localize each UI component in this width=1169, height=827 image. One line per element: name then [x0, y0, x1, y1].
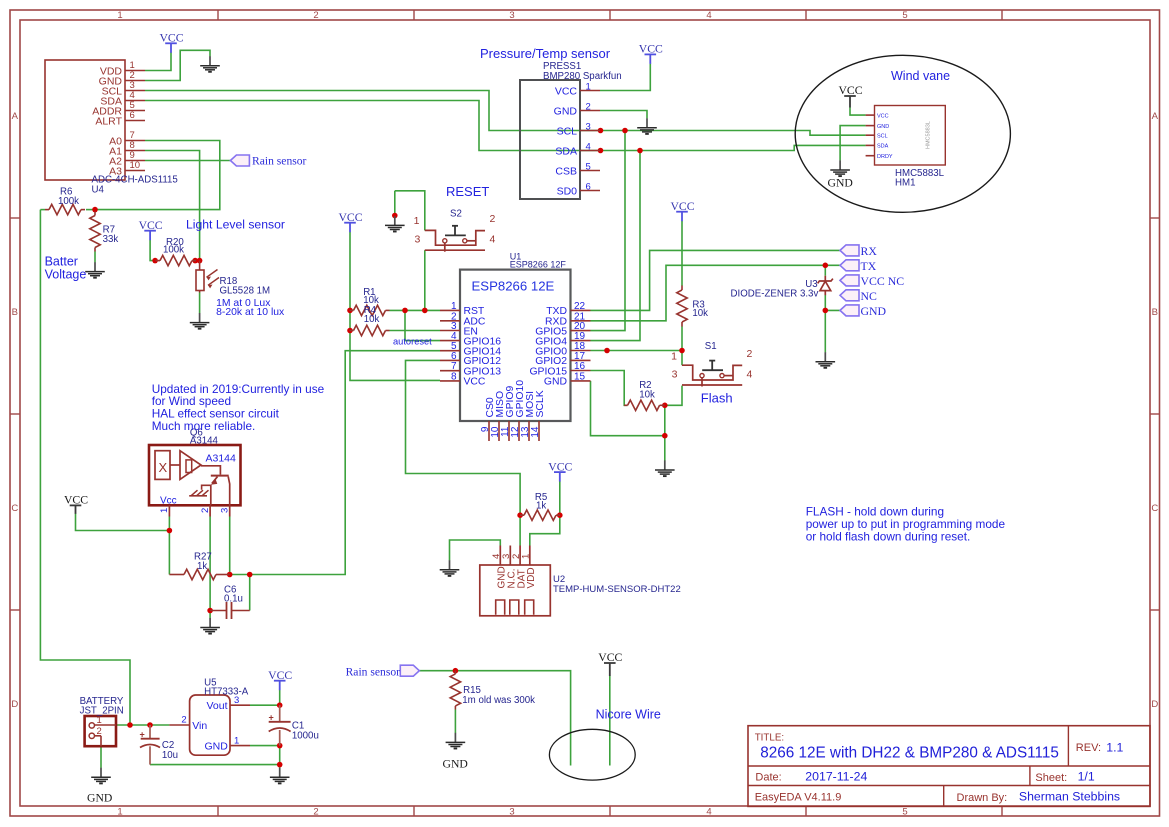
wire SDA net U4 to BMP280	[145, 101, 601, 151]
VCC symbol above BMP280	[645, 53, 657, 55]
wire VCC to R5 right node	[559, 481, 561, 515]
svg-text:TXD: TXD	[546, 306, 567, 317]
border row ticks left	[10, 218, 20, 610]
svg-text:1000u: 1000u	[292, 731, 319, 742]
svg-text:GPIO15: GPIO15	[529, 366, 567, 377]
svg-text:6: 6	[586, 182, 591, 193]
wire rain sensor to nichrome wire	[419, 671, 570, 766]
svg-text:HT7333-A: HT7333-A	[204, 687, 249, 698]
wire SCL net down to GPIO5	[591, 131, 626, 331]
svg-text:4: 4	[490, 234, 496, 246]
border row ticks right	[1150, 218, 1160, 610]
svg-text:SD0: SD0	[557, 185, 578, 197]
svg-text:4: 4	[706, 10, 711, 21]
svg-text:SCL: SCL	[557, 125, 578, 137]
IC U1 ESP8266 12E body	[440, 270, 591, 441]
svg-text:33k: 33k	[103, 234, 119, 245]
svg-text:VCC: VCC	[64, 494, 88, 507]
wire TX to zener U3	[824, 265, 826, 275]
wire S1 node down to switch	[681, 351, 683, 366]
ground symbol C1	[279, 768, 281, 777]
border column labels top	[117, 10, 907, 21]
wire nichrome VCC drop	[609, 676, 611, 766]
net flag RX	[840, 245, 859, 256]
svg-text:Nicore Wire: Nicore Wire	[596, 708, 661, 722]
wire GPIO15 to R2	[591, 371, 628, 406]
wire Q6 pin3 down to R27 node	[229, 517, 231, 575]
svg-text:Sheet:: Sheet:	[1035, 772, 1067, 784]
border row labels right	[1151, 111, 1158, 710]
svg-text:GND: GND	[877, 124, 889, 130]
wire R7 to ground	[94, 252, 96, 263]
svg-text:Voltage: Voltage	[45, 267, 87, 281]
net flag VCC NC	[840, 275, 859, 286]
svg-text:100k: 100k	[163, 244, 184, 255]
svg-text:2: 2	[313, 10, 318, 21]
svg-text:A: A	[12, 111, 19, 122]
wire VCC to R20	[150, 240, 155, 261]
title block frame	[748, 726, 1150, 807]
capacitor C6 0.1u	[210, 610, 226, 612]
svg-text:Vin: Vin	[192, 720, 207, 732]
svg-text:DRDY: DRDY	[877, 154, 893, 160]
svg-text:C: C	[1151, 503, 1158, 514]
svg-text:2: 2	[97, 726, 102, 737]
wire C1 bottom to ground	[279, 746, 281, 768]
battery JST 2PIN body	[85, 715, 116, 746]
border column ticks top	[218, 10, 1002, 20]
wire SCL net BMP280 to wind vane	[601, 131, 866, 136]
svg-text:1/1: 1/1	[1078, 770, 1095, 784]
svg-text:VCC: VCC	[670, 200, 694, 213]
wire TXD to RX flag	[591, 250, 841, 310]
wire R6 R7 node segment	[86, 209, 95, 211]
resistor R15 1m	[454, 671, 456, 674]
svg-text:ADC-4CH-ADS1115: ADC-4CH-ADS1115	[92, 175, 178, 186]
svg-text:3: 3	[414, 234, 420, 246]
svg-text:VCC: VCC	[268, 669, 292, 682]
VCC symbol wind vane	[844, 95, 856, 97]
resistor R20 100k	[156, 260, 161, 262]
svg-text:SDA: SDA	[877, 144, 889, 150]
net flag Rain sensor bottom	[400, 665, 419, 676]
svg-text:4: 4	[706, 806, 711, 817]
svg-text:VCC: VCC	[639, 43, 663, 56]
wire Q6 pin1 down to R27	[168, 531, 170, 575]
svg-text:A: A	[1152, 111, 1159, 122]
svg-text:1: 1	[97, 715, 102, 726]
svg-text:TX: TX	[861, 259, 877, 273]
wire wind vane VCC to pin	[850, 108, 866, 116]
svg-text:Pressure/Temp sensor: Pressure/Temp sensor	[480, 46, 611, 61]
svg-text:Vout: Vout	[206, 700, 227, 712]
svg-text:GND: GND	[861, 304, 887, 318]
svg-text:TEMP-HUM-SENSOR-DHT22: TEMP-HUM-SENSOR-DHT22	[553, 584, 681, 595]
svg-text:or hold flash down during rese: or hold flash down during reset.	[806, 529, 971, 543]
svg-text:A3144: A3144	[190, 436, 219, 447]
resistor R2 10k	[624, 404, 628, 406]
wire SDA net BMP280 to wind vane	[601, 145, 866, 150]
svg-text:A3144: A3144	[206, 452, 237, 464]
VCC symbol above R5	[554, 471, 566, 473]
svg-text:5: 5	[586, 162, 591, 173]
wire S2 pin3 to RST	[424, 250, 426, 310]
wire S2 top loop to ground	[395, 191, 425, 231]
sensor U2 DHT22 body	[480, 546, 551, 616]
svg-text:GND: GND	[87, 792, 112, 805]
svg-text:S2: S2	[450, 209, 462, 220]
push button S2 RESET	[425, 230, 485, 245]
net flag TX	[840, 260, 859, 271]
ground symbol R18	[199, 313, 201, 322]
border row labels left	[11, 111, 18, 710]
svg-text:VCC NC: VCC NC	[861, 274, 905, 288]
svg-text:10: 10	[130, 160, 141, 171]
svg-text:2: 2	[747, 348, 753, 360]
svg-text:10k: 10k	[639, 389, 655, 400]
diode zener U3	[824, 276, 826, 281]
wire R1 to RST	[390, 309, 441, 311]
svg-text:VCC: VCC	[555, 85, 578, 97]
svg-text:U4: U4	[92, 185, 105, 196]
svg-text:B: B	[12, 307, 18, 318]
svg-text:D: D	[1151, 699, 1158, 710]
svg-text:D: D	[11, 699, 18, 710]
svg-text:NC: NC	[861, 289, 878, 303]
VCC symbol nichrome wire	[604, 662, 616, 664]
svg-text:15: 15	[574, 371, 586, 382]
svg-text:3: 3	[509, 806, 514, 817]
ground symbol top left	[209, 56, 211, 65]
svg-text:1: 1	[451, 301, 457, 312]
svg-text:ESP8266 12E: ESP8266 12E	[472, 278, 555, 293]
svg-text:100k: 100k	[58, 196, 79, 207]
svg-text:Drawn By:: Drawn By:	[957, 792, 1008, 804]
wire R3 to S1 node	[681, 326, 683, 350]
VCC symbol above R20	[144, 230, 156, 232]
VCC symbol above R1	[344, 222, 356, 224]
IC HM1 HMC5883L body	[866, 106, 946, 166]
ground symbol C6	[209, 618, 211, 627]
svg-text:10k: 10k	[364, 314, 380, 325]
wire C6 right lead up to output node	[249, 575, 251, 611]
wire A0 to battery voltage divider	[95, 141, 220, 210]
svg-text:HMC5883L: HMC5883L	[926, 121, 932, 149]
svg-text:VCC: VCC	[464, 377, 486, 388]
svg-text:REV:: REV:	[1076, 742, 1101, 754]
nichrome wire ellipse	[549, 729, 635, 780]
IC PRESS1 BMP280 body	[520, 80, 600, 199]
svg-text:B: B	[1152, 307, 1158, 318]
svg-text:1: 1	[159, 508, 170, 513]
svg-text:14: 14	[530, 426, 541, 438]
wire S1 pin3 to R2 node	[665, 386, 682, 406]
IC U4 ADC-4CH-ADS1115 body	[45, 60, 145, 180]
VCC symbol above C1	[274, 680, 286, 682]
svg-text:SCL: SCL	[877, 133, 888, 139]
push button S1 Flash	[682, 365, 742, 380]
svg-text:ESP8266 12F: ESP8266 12F	[510, 259, 567, 269]
wire battery plus rail to R6	[40, 210, 130, 725]
svg-text:1.1: 1.1	[1106, 741, 1123, 755]
svg-text:1: 1	[234, 736, 239, 747]
svg-text:VCC: VCC	[159, 32, 183, 45]
wire BMP280 VCC	[600, 64, 650, 91]
svg-text:5: 5	[902, 806, 907, 817]
wire DHT22 pin1 to R5 right and VCC	[530, 515, 560, 545]
capacitor C1 1000u polarized	[279, 705, 281, 722]
svg-text:Wind vane: Wind vane	[891, 69, 950, 83]
svg-text:1: 1	[414, 215, 420, 227]
resistor R7 33k	[94, 212, 96, 216]
resistor R3 10k	[681, 286, 683, 291]
ground symbol BMP280	[646, 118, 648, 127]
resistor R5 1k	[520, 514, 524, 516]
wire autoreset RST to GPIO16	[405, 310, 440, 340]
svg-text:0.1u: 0.1u	[224, 594, 243, 605]
svg-text:X: X	[159, 460, 168, 475]
wire R15 to ground	[454, 710, 456, 734]
svg-text:5: 5	[902, 10, 907, 21]
svg-text:2: 2	[490, 213, 496, 225]
svg-text:+: +	[269, 713, 274, 723]
wire A2 to rain sensor flag	[145, 160, 230, 162]
wire A1 to light sensor node	[145, 151, 200, 261]
wire ESP GND pin15 down	[591, 381, 665, 436]
svg-text:SCLK: SCLK	[535, 390, 546, 417]
svg-text:DIODE-ZENER 3.3v: DIODE-ZENER 3.3v	[731, 288, 819, 299]
svg-text:1: 1	[117, 806, 122, 817]
wire GPIO0 to S1 node	[591, 350, 683, 352]
svg-text:TITLE:: TITLE:	[755, 732, 784, 743]
svg-text:1: 1	[521, 554, 532, 559]
svg-text:Rain sensor: Rain sensor	[252, 155, 307, 168]
svg-text:C: C	[11, 503, 18, 514]
net flag GND	[840, 305, 859, 316]
svg-text:ALRT: ALRT	[95, 115, 122, 127]
VCC symbol Q6	[70, 504, 82, 506]
svg-text:4: 4	[747, 369, 753, 381]
svg-text:EasyEDA V4.11.9: EasyEDA V4.11.9	[755, 792, 842, 804]
VCC symbol above R3	[676, 211, 688, 213]
svg-text:1k: 1k	[536, 501, 546, 512]
svg-text:8: 8	[451, 371, 457, 382]
svg-text:16: 16	[574, 361, 586, 372]
svg-text:SDA: SDA	[555, 145, 577, 157]
svg-text:Light Level sensor: Light Level sensor	[186, 217, 285, 231]
wire GPIO12 to R5 DHT22 data	[406, 360, 521, 515]
svg-text:1k: 1k	[197, 561, 207, 572]
hall sensor Q6 A3144 body	[149, 445, 241, 517]
wire R20 to R18 node	[195, 260, 199, 262]
wire S2 ground drop	[394, 191, 396, 216]
wire battery pin2 to ground	[100, 746, 102, 768]
svg-text:VCC: VCC	[877, 113, 889, 119]
svg-text:1: 1	[117, 10, 122, 21]
ground symbol wind vane	[839, 160, 841, 169]
svg-text:22: 22	[574, 301, 586, 312]
resistor R1 10k	[350, 309, 354, 311]
svg-text:JST_2PIN: JST_2PIN	[80, 705, 124, 716]
ground symbol U3	[824, 352, 826, 361]
svg-text:8266 12E with DH22 & BMP280 &: 8266 12E with DH22 & BMP280 & ADS1115	[760, 745, 1059, 762]
svg-text:S1: S1	[705, 341, 717, 352]
wire zener node to ground	[824, 310, 826, 352]
ground symbol DHT22	[449, 560, 451, 569]
wire RXD to TX flag	[591, 265, 841, 321]
svg-text:VCC: VCC	[598, 651, 622, 664]
ground symbol S2	[394, 216, 396, 225]
svg-text:2: 2	[181, 715, 186, 726]
svg-text:2: 2	[200, 508, 211, 513]
svg-text:VCC: VCC	[838, 84, 862, 97]
VCC symbol above U4	[165, 42, 177, 44]
net flag NC	[840, 290, 859, 301]
ground symbol R2	[664, 460, 666, 469]
svg-text:1m old was 300k: 1m old was 300k	[462, 695, 535, 706]
photoresistor R18 GL5528	[199, 261, 201, 270]
wire SCL net U4 to BMP280	[145, 91, 601, 131]
svg-text:1: 1	[586, 82, 591, 93]
net flag Rain sensor top	[230, 155, 249, 166]
wire zener U3 to GND flag	[825, 295, 840, 311]
svg-text:8-20k at 10 lux: 8-20k at 10 lux	[216, 307, 285, 318]
svg-text:10k: 10k	[692, 308, 708, 319]
svg-text:Sherman Stebbins: Sherman Stebbins	[1019, 790, 1120, 804]
wire C2 bottom to C1 bottom rail	[150, 764, 280, 766]
wire SDA net down to GPIO4	[591, 151, 641, 341]
svg-text:GND: GND	[204, 741, 228, 753]
svg-text:+: +	[140, 730, 145, 740]
svg-text:3: 3	[509, 10, 514, 21]
svg-text:6: 6	[130, 110, 135, 121]
svg-text:Much more reliable.: Much more reliable.	[152, 419, 256, 433]
svg-text:RST: RST	[464, 306, 485, 317]
svg-text:Flash: Flash	[701, 391, 733, 406]
svg-text:4: 4	[586, 142, 591, 153]
wire R5 left to DHT22 pin2	[519, 515, 521, 545]
wire Q6 output node to GPIO14	[230, 351, 440, 575]
wire wind vane GND pin to ground	[840, 126, 866, 161]
resistor R27 1k	[169, 574, 184, 576]
wire R4 to EN	[390, 330, 441, 332]
svg-text:2: 2	[586, 102, 591, 113]
svg-text:10u: 10u	[162, 750, 178, 761]
regulator U5 HT7333-A body	[169, 695, 250, 755]
svg-text:autoreset: autoreset	[393, 337, 432, 347]
ground symbol R7	[94, 262, 96, 271]
svg-text:GND: GND	[554, 105, 578, 117]
svg-text:RESET: RESET	[446, 184, 489, 199]
wire Q6 pin2 down to C6 and ground	[209, 517, 211, 619]
wire R2 node to ground	[664, 405, 666, 460]
svg-text:CSB: CSB	[555, 165, 577, 177]
wind vane ellipse	[795, 55, 1010, 212]
border column ticks bottom	[218, 806, 1002, 816]
wire VCC to R3	[681, 221, 683, 286]
wire U4 GND pin2 to ground	[145, 50, 210, 80]
svg-text:RX: RX	[861, 244, 878, 258]
svg-text:HM1: HM1	[895, 177, 915, 188]
svg-text:GND: GND	[544, 377, 567, 388]
wire U4 VDD to VCC	[145, 53, 171, 71]
svg-text:VCC: VCC	[338, 211, 362, 224]
svg-text:Batter: Batter	[45, 255, 78, 269]
border column labels bottom	[117, 806, 907, 817]
svg-text:VCC: VCC	[548, 460, 572, 473]
svg-text:GND: GND	[443, 758, 468, 771]
wire BMP280 GND to ground	[600, 111, 647, 119]
svg-text:Rain sensor: Rain sensor	[346, 666, 401, 679]
svg-text:GL5528 1M: GL5528 1M	[220, 285, 271, 296]
wire R18 to ground	[199, 293, 201, 314]
svg-text:Date:: Date:	[755, 772, 781, 784]
wire VCC to Q6 pin1	[76, 514, 170, 531]
wire battery pin1 to Vin	[116, 724, 169, 726]
svg-text:VCC: VCC	[139, 219, 163, 232]
ground symbol R15	[454, 733, 456, 742]
svg-text:BMP280 Sparkfun: BMP280 Sparkfun	[543, 71, 622, 82]
wire Q6 pin1 stub	[168, 517, 170, 531]
svg-text:GND: GND	[828, 176, 853, 189]
wire VCC to C1 top	[279, 690, 281, 705]
svg-text:3: 3	[220, 508, 231, 513]
capacitor C2 10u polarized	[149, 725, 151, 739]
wire U5 Vout to C1	[250, 704, 280, 706]
svg-text:1: 1	[671, 350, 677, 362]
svg-text:2: 2	[313, 806, 318, 817]
svg-text:VDD: VDD	[526, 567, 537, 588]
wire VCC rail to ESP pin8	[350, 232, 440, 381]
wire DHT22 pin4 to ground	[450, 540, 501, 560]
resistor R6 100k	[45, 209, 49, 211]
wire U5 GND to C1 node	[250, 745, 280, 747]
resistor R4 10k	[350, 330, 354, 332]
svg-text:Vcc: Vcc	[160, 495, 177, 506]
svg-text:2017-11-24: 2017-11-24	[805, 770, 867, 784]
ground symbol battery	[100, 768, 102, 777]
svg-text:3: 3	[586, 122, 591, 133]
svg-text:3: 3	[672, 369, 678, 381]
